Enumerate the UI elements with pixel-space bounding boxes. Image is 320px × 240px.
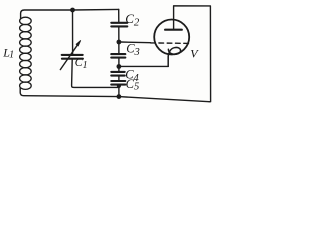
capacitor C2 plates — [111, 22, 127, 24]
wire top from coil to capacitor stack — [21, 9, 119, 18]
capacitor C5 plates — [111, 80, 125, 82]
wire grid lead to tube — [121, 41, 150, 44]
tube V grid dashed line — [151, 42, 190, 45]
capacitor C4 plates — [111, 71, 124, 73]
node junction dot top of C1 branch — [70, 8, 75, 13]
capacitor C1 plates — [62, 54, 83, 56]
node junction dot grid tap — [117, 40, 122, 45]
wire plate return loop: right vertical, top horizontal, anode lead — [174, 6, 211, 102]
tube V envelope — [154, 20, 189, 55]
tube V plate bar — [165, 29, 182, 31]
node junction dot cathode tap — [117, 64, 122, 69]
wire cathode lead from stack to tube — [121, 65, 168, 67]
wire bottom rail right section — [119, 97, 209, 102]
inductor L1 coil loops — [20, 17, 32, 89]
capacitor C1 variable arrow — [60, 45, 77, 70]
capacitor C3 plates — [111, 53, 125, 55]
tube V cathode curl — [168, 47, 180, 66]
wire C1 lower lead down and right to stack — [72, 60, 119, 88]
node junction dot C1 return tap — [117, 84, 121, 88]
wire C1 upper lead — [72, 10, 74, 54]
wire coil bottom to bottom rail — [20, 88, 119, 97]
wire capacitor stack vertical — [118, 9, 120, 96]
node junction dot bottom rail — [117, 94, 122, 99]
